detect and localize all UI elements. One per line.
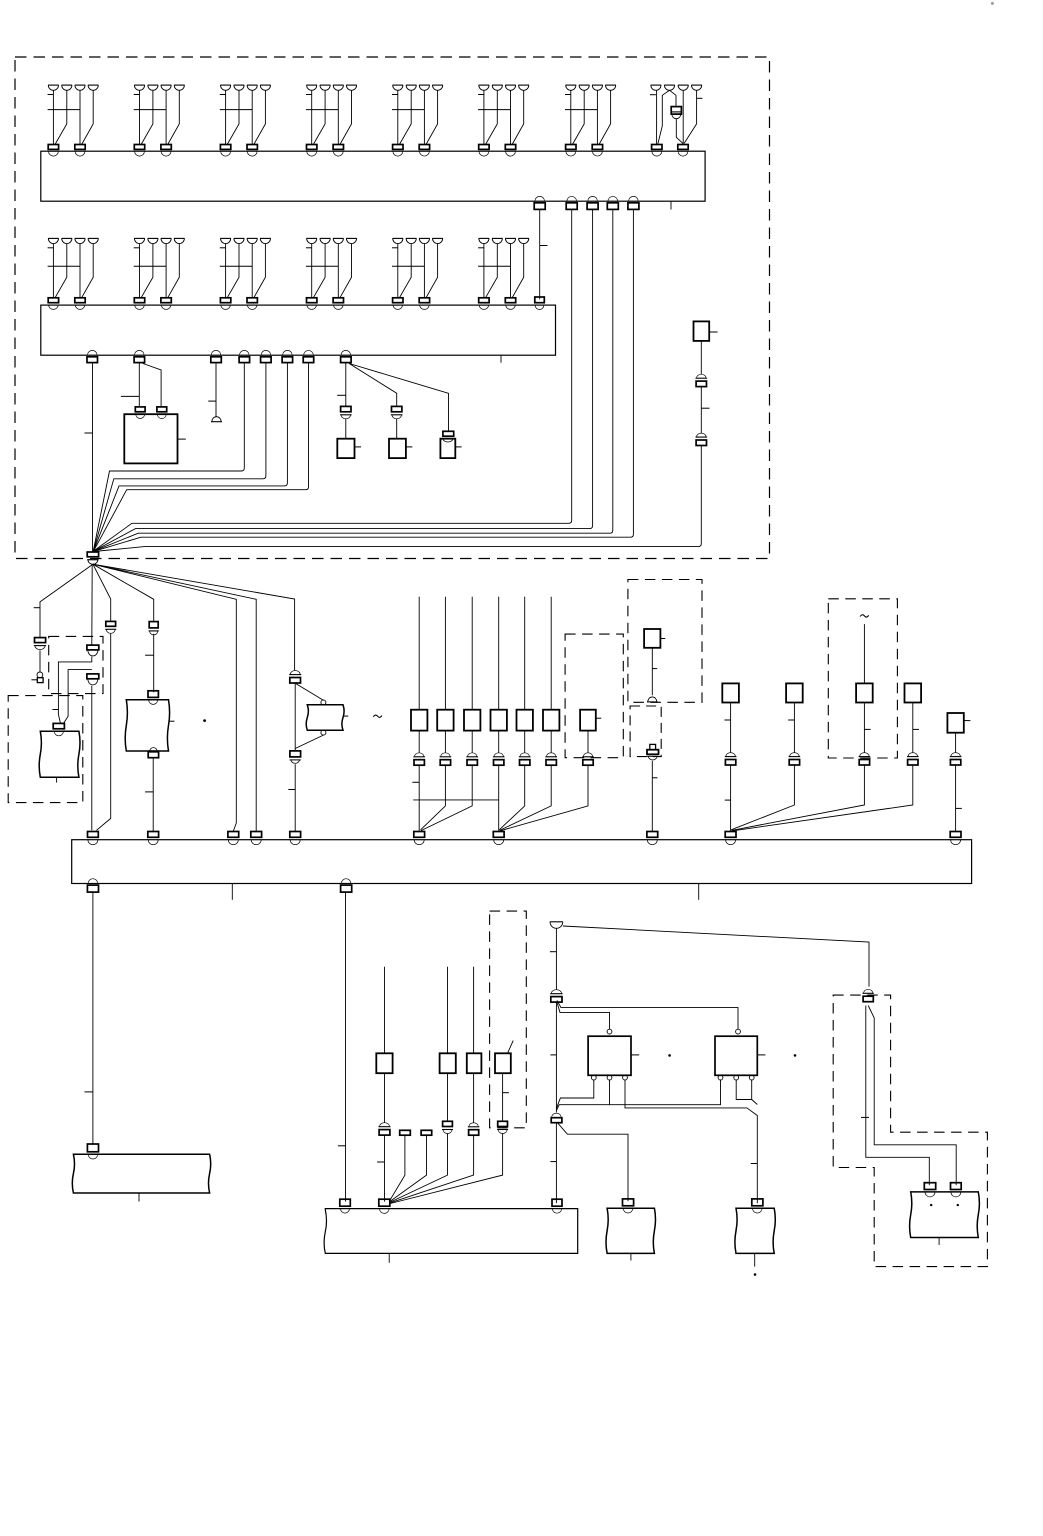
connector V3	[421, 1130, 432, 1135]
connector pin Q3 on strip X3	[228, 832, 239, 838]
wire stack B down to strip X3	[91, 686, 93, 831]
injector group C4	[306, 237, 317, 239]
module V6	[495, 1053, 511, 1073]
stub under strip X3 left	[231, 884, 233, 900]
wire H4	[498, 731, 500, 753]
wire F4 down	[153, 634, 155, 693]
long diagonal wire	[563, 926, 869, 987]
module H3	[464, 710, 480, 731]
connector pins on G1	[135, 407, 145, 412]
wire T4 down	[555, 1123, 557, 1203]
injector group A4	[306, 84, 317, 86]
injector group C5	[393, 237, 404, 239]
wire R2 down	[345, 892, 347, 1201]
wire H3	[471, 731, 473, 753]
wire V1	[384, 1073, 386, 1122]
connector pin Q4 on strip X3	[251, 832, 262, 838]
dot mid left	[203, 719, 206, 722]
dashed box around key switch	[630, 706, 661, 757]
dashed box around stack	[49, 636, 103, 693]
connector E3	[443, 431, 454, 436]
wire column H3	[471, 597, 473, 710]
module M2	[125, 700, 169, 751]
connector pin B1 under strip X1	[535, 196, 545, 201]
fuse F1	[671, 107, 681, 115]
splice connector on strip X4	[379, 1199, 390, 1206]
module H5	[517, 710, 533, 731]
wire column V1	[384, 967, 386, 1054]
wire K3 pin2 bus	[556, 1080, 609, 1111]
connector pair H2	[440, 756, 452, 758]
module V4	[440, 1053, 456, 1073]
wire R1 down	[92, 892, 94, 1144]
connector pair F7b	[290, 751, 301, 757]
wire P1	[730, 703, 732, 753]
wire D5 to splice	[93, 363, 266, 551]
connector on module M2	[148, 691, 158, 698]
wire D6 to splice	[93, 363, 287, 551]
wire D3 to terminal	[215, 363, 217, 418]
wire to relay K3 coil	[557, 1003, 610, 1030]
wire H5	[524, 731, 526, 753]
connector pair V5	[468, 1126, 479, 1128]
wire B3 to splice	[94, 210, 593, 552]
wire H1 to strip X3	[418, 765, 420, 831]
connector pin D5 under strip X2	[261, 350, 271, 355]
connector pin Q7 on strip X3	[493, 832, 504, 838]
module H4	[491, 710, 507, 731]
wire K1 down	[700, 341, 702, 374]
wire H7 to splice	[500, 765, 588, 830]
injector group C6	[479, 237, 490, 239]
stub under strip X1	[670, 201, 672, 209]
wire D1 to splice	[92, 363, 94, 552]
wire H6 to splice	[500, 765, 552, 830]
wire J1 branch 5	[93, 564, 236, 831]
connector pin Q2 on strip X3	[148, 832, 159, 838]
stub under strip X4	[388, 1253, 390, 1262]
wire K2 pin3	[752, 1080, 758, 1105]
stub under strip X2	[500, 355, 502, 363]
dashed box around V6	[490, 911, 527, 1128]
module W2	[606, 1208, 656, 1253]
wire P5 to strip X3	[955, 765, 957, 831]
connector strip X3	[72, 840, 972, 884]
sensor circle+base	[37, 672, 43, 678]
dome terminal	[211, 421, 222, 423]
wire T1 down	[555, 928, 557, 990]
connector pin D6 under strip X2	[283, 350, 293, 355]
wire K3 pin1	[556, 1080, 593, 1108]
connector pair F1	[35, 638, 46, 643]
wire P2 to splice	[731, 765, 794, 830]
connector pair P4	[907, 756, 919, 758]
module W1	[72, 1154, 210, 1193]
connector on module W1	[87, 1144, 98, 1152]
module W4	[910, 1192, 980, 1238]
wire column V5	[473, 967, 475, 1054]
connector pair H1	[413, 756, 425, 758]
dot	[794, 1054, 797, 1057]
module P2	[786, 683, 803, 702]
wire P3	[863, 703, 865, 753]
connector pin Q10 on strip X3	[950, 832, 961, 838]
sensor box E2	[389, 439, 406, 458]
wire V1 to splice	[384, 1136, 386, 1202]
wire V5	[473, 1073, 475, 1122]
wire H4 to strip X3	[498, 765, 500, 831]
connector pair H4	[493, 756, 505, 758]
wire H2 to splice	[421, 765, 446, 829]
connector pin Q1 on strip X3	[88, 832, 99, 838]
module P4	[905, 683, 922, 702]
wire B5 to splice	[94, 210, 634, 552]
connector pair V6	[498, 1121, 508, 1126]
wire D2 to module G1	[138, 363, 140, 407]
connector pair F3	[106, 621, 116, 626]
module P5	[947, 713, 963, 733]
module P1	[722, 683, 739, 702]
wire H1	[418, 731, 420, 753]
connector pin R1 under strip X3	[88, 879, 98, 884]
wire J1 branch 3	[93, 564, 111, 621]
wire T2 down	[555, 1002, 557, 1112]
dot	[668, 1054, 671, 1057]
wire with stub	[700, 387, 702, 433]
wire P4 to splice	[732, 765, 913, 831]
wire V2 to splice	[390, 1135, 405, 1201]
module W3	[735, 1208, 775, 1253]
connector strip X2	[41, 305, 556, 355]
wire J1 branch 4	[93, 564, 154, 621]
injector group A8 with fuse F1	[651, 84, 662, 86]
wire column H4	[498, 597, 500, 710]
connector pins A8 on strip X1	[652, 145, 662, 150]
wire P4	[912, 703, 914, 753]
wire key to strip X3	[651, 761, 653, 831]
wire J1 branch 2	[91, 564, 93, 645]
connector pin Q5 on strip X3	[290, 832, 301, 838]
connector pin D7 under strip X2	[304, 350, 314, 355]
wire P3 to splice	[732, 765, 865, 830]
module P3	[856, 683, 873, 702]
tick	[52, 709, 58, 711]
tilde above P3	[860, 615, 869, 617]
dashed boundary right assembly	[833, 995, 987, 1267]
wire E2	[396, 419, 398, 439]
faint dot top right	[991, 2, 994, 5]
wire to sensor	[39, 650, 41, 672]
injector group A3	[220, 84, 231, 86]
connector pair V4	[443, 1121, 453, 1126]
connector pair T4	[551, 1117, 562, 1119]
connector pair P3	[859, 756, 871, 758]
injector group A1	[48, 84, 59, 86]
connector pair F7	[289, 674, 301, 676]
wire H7	[587, 731, 589, 753]
connector V2	[400, 1130, 411, 1135]
connector pair T3	[863, 992, 874, 994]
wire P2	[793, 703, 795, 753]
sensor box E3	[441, 438, 455, 440]
connector pair E2	[392, 406, 402, 411]
wire H5 to splice	[499, 765, 524, 829]
connector pair on module M1	[53, 723, 64, 728]
dashed box around H7	[565, 634, 623, 758]
wire J1 branch 6	[93, 564, 256, 831]
injector group C1	[48, 237, 59, 239]
connector pair H3	[466, 756, 478, 758]
injector group A6	[479, 84, 490, 86]
module K1	[694, 321, 710, 341]
wire H2	[444, 731, 446, 753]
wire D4 to splice	[93, 363, 244, 551]
tilde mark	[373, 715, 382, 717]
wire P5	[955, 733, 957, 753]
wire F7 down	[294, 683, 296, 751]
module H7	[580, 710, 596, 731]
connector pin B2 under strip X1	[567, 196, 577, 201]
wire J1 branch 1	[40, 564, 93, 637]
module G1	[124, 414, 177, 463]
wire B2 to splice	[94, 210, 572, 551]
wire J1 branch 7	[93, 564, 295, 670]
connector pins on module W4	[924, 1183, 935, 1190]
wire D7 to splice	[94, 363, 309, 552]
wire loop left	[58, 657, 91, 724]
injector group A5	[393, 84, 404, 86]
wire K2 pin2	[736, 1080, 752, 1100]
connector pair S2	[696, 436, 708, 438]
module H2	[437, 710, 453, 731]
sensor box E1	[337, 439, 354, 458]
wire column H2	[444, 597, 446, 710]
connector pin D4 under strip X2	[240, 350, 250, 355]
module V5	[467, 1053, 482, 1073]
link bar H1-H4	[413, 799, 498, 801]
wire column V4	[447, 967, 449, 1054]
relay K2	[736, 1029, 741, 1034]
connector pin Q8 on strip X3	[647, 832, 658, 838]
injector group A2	[134, 84, 145, 86]
wire P1 to strip X3	[730, 765, 732, 831]
injector group C2	[134, 237, 145, 239]
connector pin Q9 on strip X3	[725, 832, 736, 838]
injector group A7	[566, 84, 577, 86]
stub under strip X3 right	[698, 884, 700, 900]
wire tilde to P3	[863, 624, 865, 683]
module N1	[644, 629, 660, 648]
connector pair P5	[950, 756, 962, 758]
connector under module M2	[148, 750, 158, 752]
dashed harness boundary	[15, 57, 770, 559]
connector pair T2	[550, 993, 562, 995]
wire S2 to splice	[94, 446, 701, 552]
relay K3	[607, 1029, 612, 1034]
dots in W4	[930, 1204, 932, 1206]
slash above V6	[508, 1041, 514, 1054]
connector strip X1	[41, 151, 705, 201]
wire D8 fan	[345, 363, 347, 407]
connector pin D8 under strip X2	[341, 350, 351, 355]
connector K2 net on X4	[552, 1199, 562, 1206]
connector pair F4	[149, 622, 158, 628]
connector pin R2 under strip X3	[341, 879, 351, 884]
wire T4 to module W2	[557, 1123, 628, 1201]
connector pin D3 under strip X2	[211, 350, 221, 355]
connector pair P1	[725, 756, 737, 758]
wire B4 to splice	[94, 210, 613, 552]
alternator branch	[295, 683, 323, 700]
connector pin D1 under strip X2	[88, 350, 98, 355]
module V1	[376, 1053, 392, 1073]
wire K3 pin3 to K2 net	[625, 1080, 757, 1203]
connector pin B3 under strip X1	[588, 196, 598, 201]
connector pin D2 under strip X2	[135, 350, 145, 355]
module H1	[411, 710, 427, 731]
wire T3 branch left	[866, 1006, 930, 1186]
wire B1 to X2	[539, 210, 541, 300]
wire F3 to strip X3	[97, 634, 111, 831]
wire V4	[447, 1073, 449, 1121]
dashed box around N1	[628, 580, 702, 703]
wire E1	[345, 419, 347, 439]
connector on module W3	[752, 1199, 763, 1206]
dot under W3	[754, 1273, 757, 1276]
wire M2 to strip X3	[152, 758, 154, 831]
module M1	[39, 731, 80, 777]
splice junction J1	[87, 552, 98, 557]
wire N1 down	[651, 648, 653, 696]
connector strip X4	[324, 1209, 578, 1254]
connector pin B4 under strip X1	[608, 196, 618, 201]
tick on K2 output	[751, 1163, 758, 1165]
injector group C3	[220, 237, 231, 239]
wire H3 to splice	[421, 765, 472, 830]
connector pair V1	[379, 1126, 391, 1128]
terminal bell T1	[550, 921, 563, 923]
connector stack A upper	[87, 645, 99, 650]
connector pair P2	[789, 756, 801, 758]
wire column H1	[418, 597, 420, 710]
connector on strip X4	[340, 1199, 351, 1206]
wire H6	[550, 731, 552, 753]
connector pin on X2 top	[535, 297, 545, 303]
wire column H6	[550, 597, 552, 710]
connector pair S1	[696, 377, 708, 379]
module H6	[543, 710, 559, 731]
connector pin Q6 on strip X3	[414, 832, 425, 838]
wire column H5	[524, 597, 526, 710]
wire T3 branch right	[868, 1006, 956, 1186]
dashed box around module M1	[8, 696, 83, 803]
dashed box around P3	[828, 599, 897, 758]
connector stack B lower	[87, 674, 99, 679]
connector pin B5 under strip X1	[629, 196, 639, 201]
connector pair H6	[545, 756, 557, 758]
connector pair H7	[582, 756, 594, 758]
wire to relay K2 coil	[557, 1001, 738, 1030]
wire V3 to splice	[390, 1135, 427, 1201]
key switch symbol	[650, 744, 656, 749]
connector pair H5	[519, 756, 531, 758]
dome N1	[647, 701, 658, 703]
wire V6	[502, 1073, 504, 1121]
connector on module W2	[623, 1199, 634, 1206]
connector pair E1	[341, 406, 351, 411]
